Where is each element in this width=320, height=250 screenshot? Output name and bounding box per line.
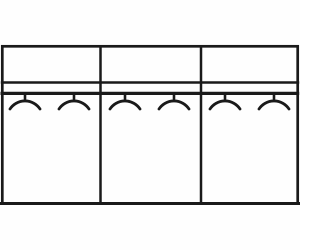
divider left	[99, 45, 102, 205]
shelf line	[1, 81, 299, 83]
clothes rail	[1, 92, 300, 95]
hanger 6 arc	[259, 101, 289, 109]
hanger 5 arc	[210, 101, 240, 109]
wardrobe outer frame	[2, 46, 297, 203]
hanger 2 arc	[59, 101, 89, 109]
hanger 4 hook	[173, 95, 176, 102]
hanger 1 arc	[10, 101, 40, 109]
hanger 6 hook	[273, 95, 276, 102]
hanger 4 arc	[159, 101, 189, 109]
divider right	[200, 45, 203, 205]
hanger 3 hook	[124, 95, 127, 102]
hanger 5 hook	[224, 95, 227, 102]
bottom plinth line	[0, 202, 300, 205]
hanger 3 arc	[110, 101, 140, 109]
hanger 1 hook	[24, 95, 27, 102]
hanger 2 hook	[73, 95, 76, 102]
